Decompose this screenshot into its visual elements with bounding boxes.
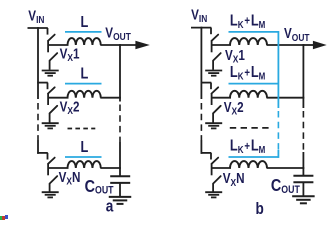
- ground below SN (a): [42, 192, 59, 197]
- svg-text:L: L: [81, 14, 89, 32]
- VIN rail wire (a) solid lower: [37, 140, 39, 154]
- cyan coupling rail (b) dashed middle: [277, 111, 279, 150]
- output rail (b) solid lower: [302, 152, 304, 175]
- ground below S1 (b): [205, 71, 222, 76]
- inductor LK+LM phase 1 (b): [230, 38, 267, 45]
- switch pair S2 (a): [48, 83, 58, 123]
- svg-text:VIN: VIN: [28, 7, 44, 26]
- VIN input bar (b): [191, 27, 211, 29]
- label VIN (b): [191, 6, 207, 25]
- svg-text:VIN: VIN: [191, 6, 207, 25]
- switch pair S1 (b): [211, 28, 221, 70]
- label b: [256, 200, 264, 219]
- branch wire to phase 2 switch (a): [37, 82, 48, 84]
- svg-text:VOUT: VOUT: [284, 25, 310, 44]
- label LK+LM phase N (b): [230, 137, 265, 155]
- branch wire to phase N switch (b): [201, 152, 212, 154]
- output rail (b) solid upper: [302, 44, 304, 108]
- svg-text:L: L: [81, 65, 89, 83]
- output rail (b) dashed middle: [302, 111, 304, 152]
- ground below S2 (b): [205, 123, 222, 128]
- wire switch to inductor phase N (a): [48, 167, 68, 169]
- cyan L annotation line phase N (a): [65, 156, 102, 158]
- wire capacitor to ground (b): [302, 183, 304, 196]
- branch wire to phase N switch (a): [37, 152, 48, 154]
- wire switch to inductor phase 1 (b): [212, 44, 231, 46]
- cyan coupling line phase 1 (b): [229, 31, 279, 33]
- label a: [106, 197, 114, 216]
- switch pair SN (b): [211, 153, 221, 193]
- inductor L phase 1 (a): [68, 38, 101, 45]
- svg-text:VX2: VX2: [224, 99, 244, 118]
- VIN rail wire (b) solid lower: [200, 140, 202, 154]
- output rail (a) dashed middle: [119, 105, 121, 143]
- wire inductor to output rail phase 2 (b): [267, 97, 305, 99]
- output rail (a) solid upper: [119, 44, 121, 101]
- ground below S1 (a): [42, 71, 59, 76]
- corner artifact: [0, 215, 8, 220]
- svg-text:COUT: COUT: [271, 176, 300, 197]
- svg-text:b: b: [256, 200, 264, 219]
- wire inductor to output rail phase 2 (a): [100, 97, 121, 99]
- inductor LK+LM phase N (b): [230, 161, 267, 168]
- ground below COUT (a): [109, 197, 132, 204]
- output rail (a) solid lower: [119, 142, 121, 176]
- label VOUT (a): [105, 24, 131, 43]
- label L phase N (a): [81, 139, 89, 157]
- svg-text:COUT: COUT: [85, 176, 114, 197]
- label VOUT (b): [284, 25, 310, 44]
- cyan L annotation line phase 1 (a): [65, 31, 102, 33]
- inductor L phase 2 (a): [68, 91, 101, 98]
- label L phase 1 (a): [81, 14, 89, 32]
- wire inductor to output rail phase 1 (b): [267, 44, 305, 46]
- cyan L annotation line phase 2 (a): [65, 83, 102, 85]
- svg-text:VXN: VXN: [223, 170, 245, 189]
- wire switch to inductor phase 1 (a): [48, 44, 68, 46]
- wire switch to inductor phase 2 (b): [212, 97, 231, 99]
- ground below S2 (a): [42, 123, 59, 128]
- VIN rail wire (b) dashed middle: [200, 103, 202, 140]
- label COUT (a): [85, 176, 114, 197]
- ground below SN (b): [205, 192, 222, 197]
- svg-text:LK+LM: LK+LM: [230, 12, 265, 30]
- ellipsis dashed wire (a): [68, 128, 96, 130]
- capacitor COUT plates (a): [110, 175, 130, 177]
- wire inductor to output rail phase N (b): [267, 167, 305, 169]
- label L phase 2 (a): [81, 65, 89, 83]
- VIN rail wire (a) dashed middle: [37, 103, 39, 140]
- switch pair SN (a): [48, 153, 58, 193]
- label COUT (b): [271, 176, 300, 197]
- switch pair S2 (b): [211, 83, 221, 123]
- svg-text:LK+LM: LK+LM: [230, 64, 265, 82]
- cyan coupling line phase N (b): [229, 156, 279, 158]
- label VIN (a): [28, 7, 44, 26]
- svg-text:VX2: VX2: [60, 98, 80, 117]
- VOUT wire to arrow (a): [119, 44, 136, 46]
- switch pair S1 (a): [48, 28, 58, 70]
- VIN rail wire (a) solid upper: [37, 27, 39, 99]
- svg-text:L: L: [81, 139, 89, 157]
- VIN input bar (a): [28, 27, 48, 29]
- label LK+LM phase 1 (b): [230, 12, 265, 30]
- svg-text:a: a: [106, 197, 114, 216]
- wire switch to inductor phase 2 (a): [48, 97, 68, 99]
- cyan coupling line phase 2 (b): [229, 83, 279, 85]
- label VX1 (a): [60, 45, 80, 64]
- capacitor COUT plates (b): [293, 175, 313, 177]
- label VXN (a): [59, 169, 81, 188]
- svg-text:LK+LM: LK+LM: [230, 137, 265, 155]
- ground below COUT (b): [292, 196, 315, 203]
- ellipsis dashed wire (b): [230, 127, 269, 129]
- label VX1 (b): [225, 47, 245, 66]
- VOUT arrowhead (a): [135, 41, 149, 49]
- wire switch to inductor phase N (b): [212, 167, 231, 169]
- wire capacitor to ground (a): [119, 184, 121, 197]
- VOUT arrowhead (b): [313, 41, 327, 49]
- svg-text:VXN: VXN: [59, 169, 81, 188]
- cyan coupling rail (b) solid lower: [277, 150, 279, 158]
- label LK+LM phase 2 (b): [230, 64, 265, 82]
- svg-text:VX1: VX1: [60, 45, 80, 64]
- cyan coupling rail (b) solid upper: [277, 31, 279, 108]
- inductor L phase N (a): [68, 161, 101, 168]
- inductor LK+LM phase 2 (b): [230, 91, 267, 98]
- svg-text:VOUT: VOUT: [105, 24, 131, 43]
- label VX2 (b): [224, 99, 244, 118]
- label VX2 (a): [60, 98, 80, 117]
- svg-text:VX1: VX1: [225, 47, 245, 66]
- VOUT wire to arrow (b): [303, 44, 315, 46]
- VIN rail wire (b) solid upper: [200, 27, 202, 99]
- branch wire to phase 2 switch (b): [201, 82, 212, 84]
- wire inductor to output rail phase N (a): [100, 167, 121, 169]
- label VXN (b): [223, 170, 245, 189]
- wire inductor to output rail phase 1 (a): [100, 44, 121, 46]
